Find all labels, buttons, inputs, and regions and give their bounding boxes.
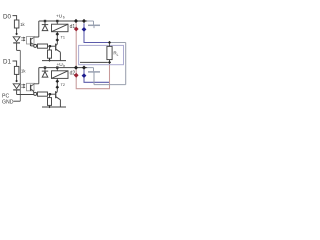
junction	[49, 93, 51, 95]
resistor R2	[14, 66, 19, 74]
pin circle	[34, 44, 37, 47]
wire	[109, 44, 111, 46]
node	[82, 19, 86, 23]
node	[74, 66, 78, 70]
svg-text:+U: +U	[56, 14, 63, 20]
wire	[16, 90, 18, 95]
wire base	[48, 45, 56, 47]
light arrows	[21, 37, 25, 39]
phototransistor U2	[27, 83, 35, 91]
wire	[49, 58, 51, 60]
svg-text:b: b	[63, 16, 65, 20]
blue node	[82, 27, 87, 32]
svg-text:1k: 1k	[20, 22, 25, 27]
resistor RL	[107, 46, 112, 59]
wire emitter	[31, 45, 34, 47]
node	[48, 106, 51, 109]
+Ub rail 1	[39, 20, 88, 22]
+Ub rail 2	[39, 67, 88, 69]
diode D1	[42, 24, 48, 26]
wire collector to rail	[34, 68, 39, 84]
node	[108, 41, 111, 44]
svg-text:b: b	[63, 64, 65, 68]
wire	[16, 28, 18, 33]
relay coil d2	[52, 71, 69, 79]
wire	[49, 105, 51, 107]
wire	[49, 46, 51, 50]
wire	[13, 61, 17, 66]
wire emitter	[32, 91, 34, 93]
svg-text:D0: D0	[3, 13, 11, 20]
svg-text:T2: T2	[61, 83, 65, 87]
wire base	[48, 93, 56, 95]
node	[48, 59, 51, 62]
transistor T1	[55, 44, 57, 51]
LED U1	[13, 37, 20, 42]
LED U2	[13, 84, 20, 89]
wire	[56, 21, 58, 24]
resistor R4	[38, 92, 48, 96]
wire PC GND	[14, 100, 21, 102]
red wire	[76, 23, 109, 89]
resistor R6	[48, 98, 52, 106]
node	[74, 19, 78, 23]
wire	[80, 61, 108, 63]
wire	[13, 16, 17, 20]
svg-text:+U: +U	[57, 62, 64, 68]
wire collector to rail	[34, 21, 39, 37]
svg-text:D1: D1	[3, 58, 11, 65]
wire	[16, 74, 18, 80]
red node	[74, 27, 79, 32]
svg-text:GND: GND	[2, 100, 14, 106]
pin circle	[34, 92, 37, 95]
relay coil d1	[52, 24, 69, 32]
ground rail 1	[42, 60, 66, 62]
transistor T2	[55, 91, 57, 98]
node	[15, 33, 18, 36]
red node 2	[74, 73, 79, 78]
resistor R5	[48, 50, 52, 58]
relay contact d1	[87, 21, 100, 28]
wire coil to collector	[56, 32, 58, 45]
node	[56, 38, 60, 42]
wire	[49, 94, 51, 97]
svg-text:1k: 1k	[21, 69, 26, 74]
blue wire	[84, 23, 109, 82]
relay contact d2	[87, 68, 100, 75]
node	[82, 66, 86, 70]
wire LED1 return	[17, 49, 21, 51]
svg-text:L: L	[117, 53, 119, 57]
resistor R1	[14, 20, 19, 28]
diode D2	[42, 70, 48, 72]
ground rail 2	[42, 106, 66, 108]
svg-text:T1: T1	[61, 35, 65, 39]
wire	[56, 68, 58, 71]
junction	[49, 45, 51, 47]
node	[15, 80, 18, 83]
node	[56, 80, 60, 84]
node D0	[3, 13, 11, 20]
node	[56, 85, 60, 89]
wire LED2 return	[17, 94, 34, 96]
resistor R3	[38, 44, 48, 48]
blue node 2	[82, 73, 87, 78]
purple box	[79, 45, 124, 64]
node	[108, 61, 111, 64]
wire	[16, 43, 18, 51]
wire	[109, 60, 111, 61]
grey load loop	[94, 43, 126, 85]
node	[56, 32, 60, 36]
phototransistor U1	[27, 37, 35, 45]
node D1	[3, 58, 11, 65]
light arrows	[21, 84, 25, 86]
wire gnd bus	[19, 50, 21, 101]
text PC GND	[2, 94, 14, 106]
wire coil to collector	[56, 78, 58, 91]
